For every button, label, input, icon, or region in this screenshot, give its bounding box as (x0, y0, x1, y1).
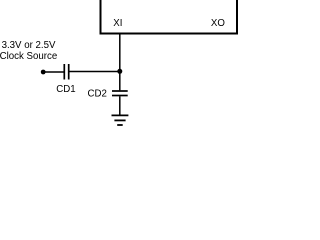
svg-text:XI: XI (113, 18, 122, 29)
wire node A to CD2 (119, 71, 121, 90)
wire CD2 to ground (119, 96, 121, 115)
svg-text:CD1: CD1 (56, 84, 76, 95)
capacitor CD2 (112, 91, 128, 96)
wire XI pin to node A (119, 35, 121, 72)
IC U1 outline (XI / XO side) (101, 0, 238, 34)
value label CD2 (88, 88, 108, 99)
svg-text:CD2: CD2 (88, 88, 108, 99)
value label CD1 (56, 84, 76, 95)
ground (112, 115, 129, 125)
svg-text:XO: XO (211, 18, 225, 29)
svg-text:Clock Source: Clock Source (0, 51, 58, 62)
svg-text:3.3V or 2.5V: 3.3V or 2.5V (2, 40, 56, 51)
pin label XO (211, 18, 225, 29)
pin label XI (113, 18, 122, 29)
wire clock source to CD1 (43, 71, 63, 73)
node A junction dot (117, 69, 122, 74)
label: 3.3V or 2.5V clock source (0, 40, 58, 63)
wire CD1 to node A (70, 71, 119, 73)
capacitor CD1 (64, 64, 68, 80)
clock source terminal dot (41, 70, 46, 75)
